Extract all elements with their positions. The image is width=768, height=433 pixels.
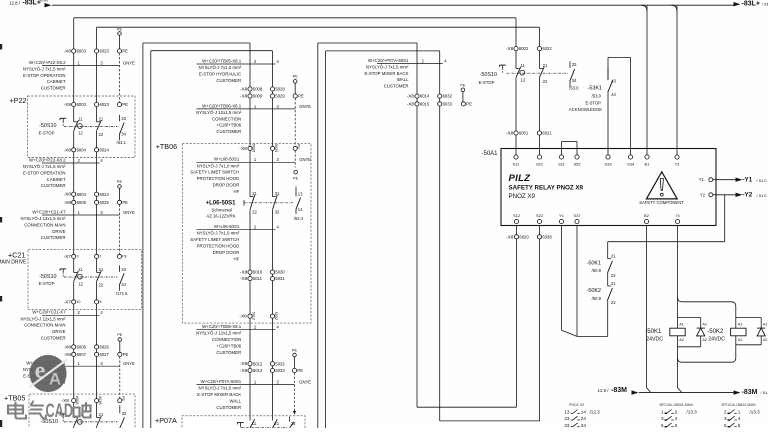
aux contact 33/34 cabinet e-stop <box>569 61 571 68</box>
svg-text:5030: 5030 <box>275 270 285 275</box>
svg-text:W+C20/+C21-X7: W+C20/+C21-X7 <box>32 310 66 315</box>
svg-text:5009: 5009 <box>251 144 255 152</box>
svg-text:33: 33 <box>121 267 126 272</box>
svg-text:-83L+: -83L+ <box>23 0 41 7</box>
PE wire dashed P22 <box>119 53 121 103</box>
cable W+C20/+TB06-X8.1 upper <box>197 108 296 110</box>
svg-text:3: 3 <box>724 416 727 421</box>
svg-text:E-STOP OPERATION: E-STOP OPERATION <box>23 73 65 78</box>
svg-text:NYSLYÖ-J 12x1,5 mm²: NYSLYÖ-J 12x1,5 mm² <box>20 316 66 321</box>
svg-text:/ 51.0: / 51.0 <box>757 178 768 183</box>
svg-text:DROP DOOR: DROP DOOR <box>213 183 240 188</box>
wire left channel1 vertical <box>73 18 75 428</box>
svg-text:34: 34 <box>581 423 587 428</box>
svg-text:34: 34 <box>121 282 126 287</box>
svg-text:CUSTOMER: CUSTOMER <box>384 84 409 89</box>
svg-text:PE: PE <box>117 179 123 184</box>
svg-text:GNYE: GNYE <box>299 380 311 385</box>
svg-text:/53.4: /53.4 <box>294 216 304 221</box>
watermark logo circle <box>29 355 67 392</box>
svg-text:PE: PE <box>293 176 299 181</box>
svg-text:5010: 5010 <box>253 270 263 275</box>
svg-text:6001: 6001 <box>519 131 529 136</box>
svg-text:14: 14 <box>298 207 303 212</box>
svg-text:32: 32 <box>275 210 280 215</box>
svg-text:-50K2: -50K2 <box>707 329 724 335</box>
cable W+L06-50S1 lower <box>197 229 276 231</box>
svg-text:GNYE: GNYE <box>123 361 135 366</box>
clipped margin marks <box>0 44 2 50</box>
svg-text:-Y2: -Y2 <box>743 192 753 199</box>
svg-text:/ 51.0: / 51.0 <box>757 193 768 198</box>
svg-text:W+C20/+P07A-50S1: W+C20/+P07A-50S1 <box>368 58 409 63</box>
svg-text:11: 11 <box>78 267 83 272</box>
svg-text:PROTECTION HOOD: PROTECTION HOOD <box>197 176 240 181</box>
svg-text:PNOZ X9: PNOZ X9 <box>569 403 584 407</box>
svg-text:NYSLYÖ-J 12x1,5 mm²: NYSLYÖ-J 12x1,5 mm² <box>20 216 66 221</box>
svg-text:A2: A2 <box>763 338 768 342</box>
svg-text:PNOZ X9: PNOZ X9 <box>509 193 536 200</box>
svg-text:-50S10: -50S10 <box>39 274 56 280</box>
svg-text:4: 4 <box>738 416 741 421</box>
svg-text:GNYE: GNYE <box>123 60 135 65</box>
svg-text:/12.3: /12.3 <box>590 409 601 414</box>
wire S33/S34 loop <box>608 56 631 58</box>
svg-text:33: 33 <box>572 62 577 67</box>
svg-text:GNYE: GNYE <box>299 157 311 162</box>
svg-text:5029: 5029 <box>274 144 278 152</box>
svg-text:AZ 16-12ZVRK: AZ 16-12ZVRK <box>206 214 235 219</box>
svg-text:A1: A1 <box>763 322 768 326</box>
svg-text:-X8: -X8 <box>240 361 248 366</box>
svg-text:E-STOP MIXER BACK: E-STOP MIXER BACK <box>364 71 408 76</box>
svg-text:PE: PE <box>292 348 298 353</box>
svg-text:5012: 5012 <box>251 312 255 320</box>
svg-text:5013: 5013 <box>253 368 263 373</box>
svg-text:E-STOP: E-STOP <box>39 130 55 135</box>
svg-text:11: 11 <box>78 117 83 122</box>
svg-text:34: 34 <box>572 78 577 83</box>
svg-text:/13.3: /13.3 <box>687 409 698 414</box>
svg-text:A1: A1 <box>738 322 743 326</box>
svg-text:PE: PE <box>466 102 472 107</box>
svg-text:22: 22 <box>99 283 104 288</box>
svg-text:11: 11 <box>521 63 526 68</box>
svg-text:PROTECTION HOOD: PROTECTION HOOD <box>197 244 240 249</box>
svg-text:5011: 5011 <box>253 276 263 281</box>
svg-text:Schmersal: Schmersal <box>211 208 231 213</box>
svg-text:12.8 /: 12.8 / <box>598 388 610 393</box>
svg-text:PE: PE <box>297 368 303 373</box>
wire 74 to coils <box>677 226 679 329</box>
svg-text:6: 6 <box>675 423 678 428</box>
bus -83L+ <box>52 4 734 6</box>
svg-text:6024: 6024 <box>100 192 110 197</box>
svg-text:A2: A2 <box>679 338 684 342</box>
svg-text:+C21: +C21 <box>8 250 25 259</box>
relay contact -50K1 21/22 <box>606 258 609 272</box>
svg-text:PE: PE <box>123 352 129 357</box>
PE wire dashed TB05 <box>119 357 121 399</box>
svg-text:S52: S52 <box>573 162 581 167</box>
svg-text:/53.0: /53.0 <box>569 85 579 90</box>
wire return C (TB05 to TB06) <box>142 43 144 428</box>
wire return D <box>150 51 152 428</box>
svg-text:6003: 6003 <box>77 49 87 54</box>
svg-text:-50S10: -50S10 <box>39 123 56 129</box>
svg-text:PE: PE <box>122 200 128 205</box>
svg-text:/53.0: /53.0 <box>592 94 602 99</box>
wire P07A ch2 to PILZ S22 <box>440 420 540 422</box>
watermark text 电气CAD吧 <box>8 402 91 420</box>
svg-text:9: 9 <box>77 255 79 259</box>
svg-text:6020: 6020 <box>519 234 529 239</box>
svg-text:-X7: -X7 <box>64 299 72 304</box>
svg-text:B2: B2 <box>644 213 650 218</box>
svg-text:ACKNOWLEDGE: ACKNOWLEDGE <box>569 107 602 112</box>
svg-text:W+C20/+TB06-X8.1: W+C20/+TB06-X8.1 <box>202 324 242 329</box>
svg-text:Y2: Y2 <box>700 192 706 197</box>
svg-text:DRIVE: DRIVE <box>52 229 65 234</box>
svg-text:HF: HF <box>234 189 240 194</box>
cable W+C20/+P22-X8.2 lower <box>42 162 100 164</box>
svg-text:CUSTOMER: CUSTOMER <box>216 350 241 355</box>
wire fillet B1 to bus <box>641 5 647 11</box>
svg-text:CABINET: CABINET <box>47 177 66 182</box>
svg-text:E-STOP HYDRAULIC: E-STOP HYDRAULIC <box>199 71 241 76</box>
svg-text:33: 33 <box>291 421 296 426</box>
svg-text:WALL: WALL <box>397 77 409 82</box>
svg-text:-X8: -X8 <box>506 234 514 239</box>
svg-text:-50K1: -50K1 <box>587 260 601 266</box>
svg-text:-X8: -X8 <box>240 368 248 373</box>
svg-text:2: 2 <box>724 409 727 414</box>
svg-text:6033: 6033 <box>443 102 453 107</box>
svg-text:22: 22 <box>543 79 548 84</box>
svg-text:5032: 5032 <box>274 312 278 320</box>
svg-text:S11: S11 <box>558 162 566 167</box>
svg-text:6026: 6026 <box>100 345 110 350</box>
svg-text:A2: A2 <box>702 338 707 342</box>
svg-text:W+C20/+P22-X8.2: W+C20/+P22-X8.2 <box>29 157 66 162</box>
E-STOP -50S10 (+C21) <box>73 272 76 282</box>
svg-text:6008: 6008 <box>75 396 79 404</box>
svg-text:6015: 6015 <box>420 102 430 107</box>
svg-text:E-STOP MIXER BACK: E-STOP MIXER BACK <box>197 392 241 397</box>
svg-text:12: 12 <box>78 281 83 286</box>
cable W+C20/+P07A-50S1 right <box>377 62 443 64</box>
svg-text:44: 44 <box>611 92 616 97</box>
svg-text:PE: PE <box>293 74 299 79</box>
svg-text:CUSTOMER: CUSTOMER <box>41 183 66 188</box>
svg-text:+C20/+TB06: +C20/+TB06 <box>217 344 242 349</box>
svg-text:-X8: -X8 <box>407 94 415 99</box>
svg-text:PE: PE <box>117 332 123 337</box>
wire channel1 top <box>74 17 516 19</box>
svg-text:6032: 6032 <box>443 94 453 99</box>
svg-text:6006: 6006 <box>77 345 87 350</box>
svg-text:-50A1: -50A1 <box>481 151 498 157</box>
svg-text:PE: PE <box>117 27 123 32</box>
svg-text:6027: 6027 <box>100 352 110 357</box>
cable W+C20/+P07A-50S1 mid <box>197 384 295 386</box>
svg-text:3: 3 <box>661 416 664 421</box>
svg-text:GNYE: GNYE <box>123 210 135 215</box>
svg-text:6005: 6005 <box>77 200 87 205</box>
svg-text:CONNECTION: CONNECTION <box>212 116 241 121</box>
svg-text:CUSTOMER: CUSTOMER <box>41 336 66 341</box>
svg-text:5029: 5029 <box>275 94 285 99</box>
suppressor diode for K2 <box>736 317 761 319</box>
PILZ top terminals <box>514 155 518 159</box>
safety component triangle <box>646 172 677 199</box>
svg-text:12.8 /: 12.8 / <box>9 1 21 6</box>
wire left channel2 vertical <box>96 27 98 428</box>
svg-text:W+C20/+C21-X7: W+C20/+C21-X7 <box>32 209 66 214</box>
svg-text:PE: PE <box>122 255 127 259</box>
svg-text:-X8: -X8 <box>64 147 72 152</box>
svg-text:-X7: -X7 <box>64 254 72 259</box>
svg-text:+P07A: +P07A <box>155 416 177 425</box>
svg-text:74: 74 <box>675 213 680 218</box>
suppressor diode for K1 <box>678 317 701 319</box>
svg-text:21: 21 <box>274 421 279 426</box>
svg-text:PE: PE <box>460 82 466 87</box>
svg-text:6028: 6028 <box>98 396 102 404</box>
svg-text:21: 21 <box>99 117 104 122</box>
svg-text:-X8: -X8 <box>240 270 248 275</box>
svg-text:PE: PE <box>121 396 125 402</box>
svg-text:CUSTOMER: CUSTOMER <box>41 235 66 240</box>
svg-text:-53K1: -53K1 <box>588 86 602 92</box>
svg-text:6038: 6038 <box>542 234 552 239</box>
svg-text:PE: PE <box>298 94 304 99</box>
wire P07A ch1 to PILZ S12 <box>417 406 517 408</box>
svg-text:S37: S37 <box>573 213 581 218</box>
svg-text:/50.9: /50.9 <box>592 296 602 301</box>
svg-text:W+L06-50S1: W+L06-50S1 <box>214 157 240 162</box>
svg-text:Y1: Y1 <box>559 213 565 218</box>
svg-text:5008: 5008 <box>253 87 263 92</box>
svg-text:21: 21 <box>99 412 104 417</box>
svg-text:5033: 5033 <box>275 368 285 373</box>
svg-text:11: 11 <box>252 421 257 426</box>
bridge S11-S52 <box>561 142 563 158</box>
svg-text:NYSLYÖ-J 7x1,0 mm²: NYSLYÖ-J 7x1,0 mm² <box>197 163 240 168</box>
relay coil -50K1 <box>670 328 685 336</box>
wire return E (TB06 to P07A) <box>317 43 319 428</box>
PE source top left <box>118 32 122 36</box>
svg-text:-50K2: -50K2 <box>587 288 601 294</box>
svg-text:22: 22 <box>611 273 616 278</box>
svg-text:+L06-50S1: +L06-50S1 <box>206 201 237 207</box>
svg-text:S22: S22 <box>536 213 544 218</box>
svg-text:-X8: -X8 <box>506 131 514 136</box>
svg-text:PE: PE <box>297 144 301 150</box>
enclosure box +TB05 <box>29 394 135 430</box>
svg-text:6007: 6007 <box>77 352 87 357</box>
svg-text:+P22: +P22 <box>10 96 27 105</box>
svg-text:S34: S34 <box>627 162 635 167</box>
svg-text:/ 51: / 51 <box>762 2 768 7</box>
wire channel2 top <box>97 26 540 28</box>
svg-text:W+C20/+P22-X8.2: W+C20/+P22-X8.2 <box>29 60 66 65</box>
svg-text:S33: S33 <box>604 162 612 167</box>
svg-text:13: 13 <box>298 192 303 197</box>
wire B2 to -83M <box>646 226 648 388</box>
svg-text:-X8: -X8 <box>407 101 415 106</box>
svg-text:-X8: -X8 <box>240 94 248 99</box>
svg-text:/171.5: /171.5 <box>116 291 128 296</box>
aux contact 33/34 (+P22) <box>119 115 121 122</box>
svg-text:6004: 6004 <box>77 147 87 152</box>
svg-text:HF: HF <box>234 256 240 261</box>
svg-text:23: 23 <box>564 416 570 421</box>
svg-text:Y1.: Y1. <box>699 177 705 182</box>
svg-text:-X8: -X8 <box>64 352 72 357</box>
cable W+C20/+TB06-X8.1 lower <box>197 329 276 331</box>
svg-text:WALL: WALL <box>230 398 242 403</box>
aux contact 13/14 (+L06) <box>295 187 297 197</box>
svg-text:-X8: -X8 <box>239 146 247 151</box>
svg-text:E-STOP: E-STOP <box>585 100 601 105</box>
svg-text:-83M: -83M <box>611 387 627 394</box>
PE wire dashed C21 <box>119 205 121 255</box>
svg-text:8: 8 <box>100 300 102 304</box>
branch loop for K2 <box>678 297 736 362</box>
svg-text:1: 1 <box>738 409 741 414</box>
enclosure box +P07A <box>182 416 305 430</box>
svg-text:-50K1: -50K1 <box>645 329 662 335</box>
enclosure box +TB06 <box>182 144 311 324</box>
svg-text:NYSLYÖ-J 7x1,5 mm²: NYSLYÖ-J 7x1,5 mm² <box>23 66 66 71</box>
cable W+L06-50S1 upper <box>197 161 296 163</box>
svg-text:S12: S12 <box>513 213 521 218</box>
svg-text:-X8: -X8 <box>64 49 72 54</box>
svg-text:NYSLYÖ-J 7x1,5 mm²: NYSLYÖ-J 7x1,5 mm² <box>366 64 409 69</box>
svg-text:NYSLYÖ-J 7x1,5 mm²: NYSLYÖ-J 7x1,5 mm² <box>23 164 66 169</box>
svg-text:21: 21 <box>611 254 616 259</box>
svg-text:21: 21 <box>543 63 548 68</box>
svg-text:6004: 6004 <box>77 192 87 197</box>
safety relay U1 -50A1 PILZ PNOZ X9 box <box>501 149 716 226</box>
svg-text:B1: B1 <box>645 162 651 167</box>
svg-text:CONNECTION MAIN: CONNECTION MAIN <box>24 222 65 227</box>
svg-text:22: 22 <box>611 300 616 305</box>
svg-text:CONNECTION MAIN: CONNECTION MAIN <box>24 323 65 328</box>
svg-text:SAFETY RELAY PNOZ X9: SAFETY RELAY PNOZ X9 <box>509 185 584 192</box>
svg-text:43: 43 <box>611 79 616 84</box>
svg-text:24VDC: 24VDC <box>646 337 663 343</box>
svg-text:PE: PE <box>122 102 128 107</box>
svg-text:E-STOP OPERATION: E-STOP OPERATION <box>23 170 65 175</box>
svg-text:CUSTOMER: CUSTOMER <box>216 129 241 134</box>
svg-text:E-STOP: E-STOP <box>39 281 55 286</box>
PE wire dashed TB06 <box>294 98 296 146</box>
cable W+C20/+C21-X7 lower <box>42 314 100 316</box>
svg-text:14: 14 <box>581 409 587 414</box>
svg-text:SAFETY COMPONENT: SAFETY COMPONENT <box>639 200 684 205</box>
svg-text:+TB06: +TB06 <box>156 142 177 151</box>
svg-text:5012: 5012 <box>253 361 263 366</box>
svg-text:DROP DOOR: DROP DOOR <box>213 250 240 255</box>
aux contact 33/34 (+C21) <box>119 265 121 272</box>
svg-text:6025: 6025 <box>100 200 110 205</box>
svg-text:24VDC: 24VDC <box>708 337 725 343</box>
svg-text:-X8: -X8 <box>239 314 247 319</box>
svg-text:5: 5 <box>724 423 727 428</box>
svg-text:5009: 5009 <box>253 94 263 99</box>
cable W+C20/+P22-X8.2 upper <box>42 64 120 66</box>
svg-text:33: 33 <box>122 411 127 416</box>
E-STOP -50S10 (+P22) <box>73 121 76 130</box>
svg-text:CUSTOMER: CUSTOMER <box>41 86 66 91</box>
svg-text:73: 73 <box>675 162 680 167</box>
relay coil -50K2 <box>731 328 746 336</box>
svg-text:10: 10 <box>77 300 81 304</box>
svg-text:12: 12 <box>521 78 526 83</box>
svg-text:6024: 6024 <box>100 147 110 152</box>
svg-text:W+C20/+P07A-50S1: W+C20/+P07A-50S1 <box>201 379 242 384</box>
svg-text:22: 22 <box>99 132 104 137</box>
enclosure box +P22 <box>28 96 136 158</box>
svg-text:5031: 5031 <box>275 276 285 281</box>
PE source inside TB06 <box>294 170 298 174</box>
E-STOP -50S1 (+P07A) <box>237 422 243 424</box>
enclosure box +C21 <box>28 249 141 309</box>
safety switch +L06-50S1 <box>249 196 251 210</box>
cable W+C20/+C21-X7 upper <box>42 214 120 216</box>
svg-text:PE: PE <box>122 49 128 54</box>
E-STOP -50S10 (+TB05) <box>73 417 76 427</box>
cable W+C20/+TB05-X8.1 left <box>42 365 120 367</box>
svg-text:-83M: -83M <box>742 389 758 396</box>
svg-text:S21: S21 <box>536 162 544 167</box>
svg-text:4: 4 <box>675 416 678 421</box>
wire feedback bottom to S37/Y1 <box>577 335 608 337</box>
svg-text:E-STOP: E-STOP <box>479 80 495 85</box>
svg-text:33: 33 <box>121 116 126 121</box>
bus -83M <box>639 392 734 394</box>
svg-text:-X8: -X8 <box>506 46 514 51</box>
svg-text:W+L06-50S1: W+L06-50S1 <box>214 224 240 229</box>
svg-text:NYSLYÖ-J 12x1,5 mm²: NYSLYÖ-J 12x1,5 mm² <box>196 110 242 115</box>
svg-text:34: 34 <box>121 131 126 136</box>
svg-text:6022: 6022 <box>542 46 552 51</box>
relay contact -50K2 21/22 <box>606 286 609 300</box>
svg-text:CUSTOMER: CUSTOMER <box>216 405 241 410</box>
svg-text:13: 13 <box>564 409 570 414</box>
svg-text:6021: 6021 <box>542 131 552 136</box>
wire B1 from bus <box>646 5 648 157</box>
svg-text:5028: 5028 <box>275 87 285 92</box>
svg-text:6014: 6014 <box>420 94 430 99</box>
svg-text:6023: 6023 <box>100 102 110 107</box>
wire return F <box>325 51 327 428</box>
svg-text:3RT101b-1BB44-3MA0: 3RT101b-1BB44-3MA0 <box>721 403 755 407</box>
PILZ bottom terminals <box>514 219 518 223</box>
svg-text:3RT101b-1BB44-3MA0: 3RT101b-1BB44-3MA0 <box>659 403 693 407</box>
svg-text:/ 51.0: / 51.0 <box>761 390 768 395</box>
svg-text:5032: 5032 <box>275 361 285 366</box>
svg-text:33: 33 <box>564 423 570 428</box>
svg-text:-Y1: -Y1 <box>743 177 753 184</box>
svg-text:-X8: -X8 <box>240 87 248 92</box>
svg-text:SAFETY LIMET SWITCH: SAFETY LIMET SWITCH <box>190 237 239 242</box>
svg-text:CONNECTION: CONNECTION <box>212 337 241 342</box>
svg-text:-X8: -X8 <box>64 200 72 205</box>
svg-text:6003: 6003 <box>77 102 87 107</box>
